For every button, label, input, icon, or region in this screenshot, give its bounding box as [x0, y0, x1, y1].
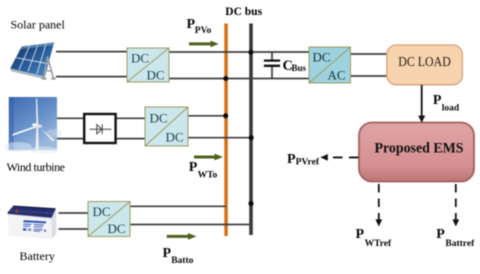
svg-text:P: P	[163, 246, 172, 261]
svg-text:DC: DC	[150, 110, 168, 125]
svg-text:P: P	[356, 227, 365, 242]
svg-text:AC: AC	[328, 68, 346, 83]
svg-text:Battref: Battref	[445, 239, 475, 249]
svg-text:Wind turbine: Wind turbine	[7, 160, 66, 174]
svg-text:DC: DC	[93, 204, 111, 219]
svg-text:P: P	[436, 227, 445, 242]
svg-text:DC: DC	[166, 130, 184, 145]
svg-text:Batto: Batto	[171, 256, 193, 266]
svg-text:WTref: WTref	[365, 239, 392, 249]
svg-text:WTo: WTo	[198, 170, 218, 180]
svg-text:P: P	[433, 93, 442, 108]
svg-text:load: load	[442, 104, 460, 114]
svg-text:DC bus: DC bus	[225, 6, 262, 18]
svg-text:Battery: Battery	[20, 249, 55, 263]
svg-text:DC: DC	[313, 50, 331, 65]
svg-text:Proposed EMS: Proposed EMS	[375, 141, 464, 157]
svg-text:PVo: PVo	[195, 26, 212, 36]
svg-text:DC: DC	[108, 221, 126, 236]
svg-text:DC: DC	[131, 50, 149, 65]
svg-text:Bus: Bus	[292, 63, 307, 73]
svg-text:PVref: PVref	[296, 158, 320, 168]
svg-text:DC LOAD: DC LOAD	[398, 54, 451, 69]
svg-text:DC: DC	[147, 68, 165, 83]
svg-text:P: P	[189, 160, 198, 175]
svg-text:Solar panel: Solar panel	[11, 17, 66, 31]
